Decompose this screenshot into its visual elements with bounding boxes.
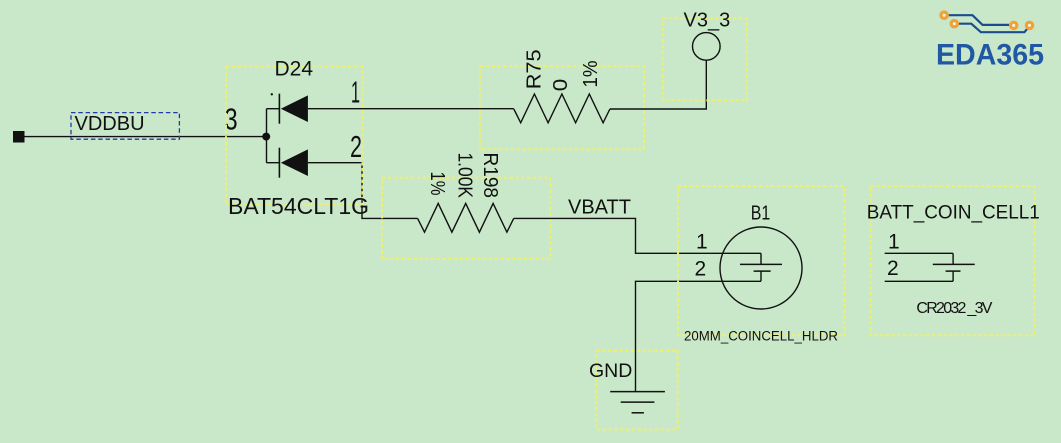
off-page terminal (black square)	[13, 131, 25, 143]
svg-text:2: 2	[695, 258, 707, 281]
wire pin2	[885, 280, 953, 282]
svg-text:CR2032 _3V: CR2032 _3V	[916, 300, 992, 317]
svg-text:VDDBU: VDDBU	[75, 113, 145, 135]
logo trace top	[949, 15, 1010, 25]
diode D24-B (bottom)	[267, 148, 308, 178]
resistor R75	[514, 94, 610, 123]
wire B1 pin2 to GND	[636, 281, 762, 391]
junction node	[262, 133, 270, 141]
svg-text:B1: B1	[751, 202, 771, 224]
svg-text:0: 0	[550, 79, 572, 92]
logo pad 4	[1025, 21, 1035, 31]
power symbol V3_3	[693, 33, 721, 61]
svg-text:2: 2	[350, 129, 362, 164]
svg-text:BATT_COIN_CELL1: BATT_COIN_CELL1	[867, 203, 1040, 224]
wire pin2 of D24 to R198	[308, 163, 418, 219]
svg-text:D24: D24	[275, 58, 314, 81]
svg-text:1%: 1%	[426, 172, 448, 196]
svg-text:1: 1	[351, 75, 360, 110]
logo pad 3	[1009, 21, 1019, 31]
wire diode common vertical	[266, 109, 268, 163]
svg-text:1: 1	[888, 231, 900, 254]
net label VDDBU	[71, 113, 179, 140]
EDA365 logo	[936, 10, 1044, 71]
selection box V3_3	[663, 18, 747, 100]
svg-text:R198: R198	[479, 153, 501, 199]
battery holder B1	[720, 227, 802, 309]
ground symbol	[610, 392, 665, 413]
svg-text:20MM_COINCELL_HLDR: 20MM_COINCELL_HLDR	[684, 329, 838, 344]
logo pad 1	[939, 10, 949, 20]
svg-text:GND: GND	[589, 360, 632, 382]
wire pin1	[885, 252, 953, 254]
svg-text:1: 1	[696, 230, 708, 253]
diode D24-A (top)	[267, 93, 308, 124]
svg-text:V3_3: V3_3	[684, 10, 731, 32]
resistor R198	[418, 203, 514, 232]
logo trace bottom	[959, 24, 1029, 33]
selection box B1	[678, 186, 845, 335]
wire VDDBU net	[25, 136, 267, 138]
svg-text:VBATT: VBATT	[568, 196, 631, 218]
svg-text:2: 2	[887, 257, 899, 280]
battery plates	[952, 253, 954, 264]
svg-text:EDA365: EDA365	[936, 39, 1044, 72]
selection box BATT_COIN_CELL1	[871, 186, 1035, 335]
svg-text:BAT54CLT1G: BAT54CLT1G	[228, 193, 369, 219]
part BATT_COIN_CELL1	[867, 186, 1040, 335]
selection box D24	[226, 67, 362, 205]
selection box R75	[480, 66, 644, 149]
svg-text:R75: R75	[524, 49, 546, 89]
wire pin1 of D24 to R75	[308, 108, 514, 110]
selection box R198	[382, 178, 550, 259]
wire R198 to VBATT node	[514, 218, 761, 253]
logo pad 2	[950, 19, 960, 29]
selection box GND	[596, 351, 677, 430]
svg-text:1.00K: 1.00K	[454, 153, 476, 199]
svg-text:1%: 1%	[580, 60, 602, 87]
wire R75 to V3_3	[610, 60, 706, 109]
